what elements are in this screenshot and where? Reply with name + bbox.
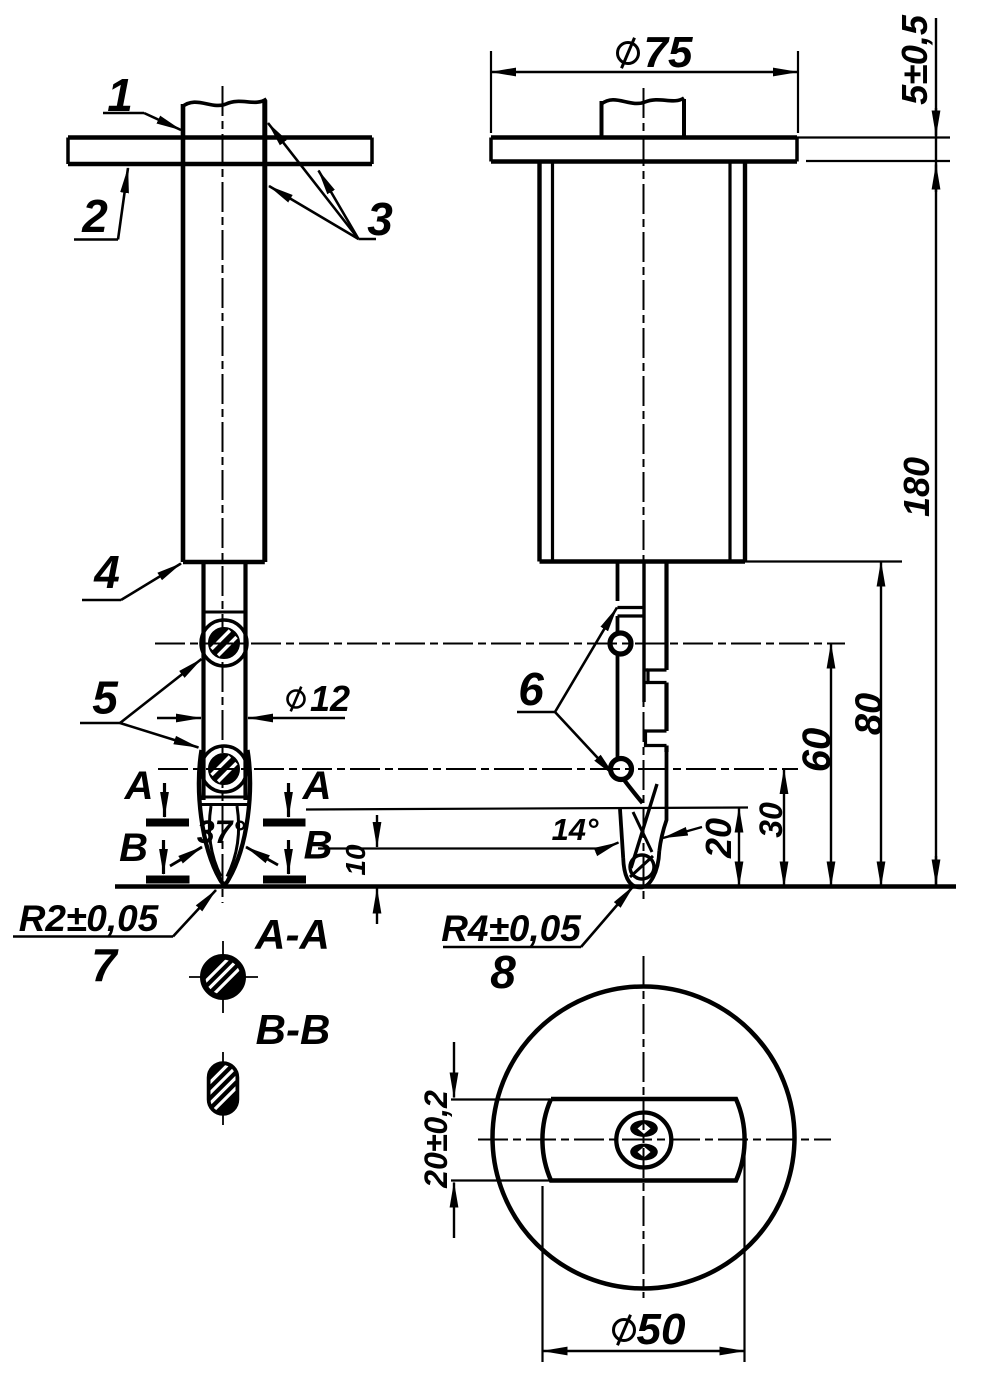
svg-text:B: B (119, 826, 148, 870)
svg-text:B-B: B-B (256, 1006, 331, 1053)
svg-text:A-A: A-A (254, 911, 330, 958)
svg-text:3: 3 (367, 193, 393, 245)
svg-text:20: 20 (698, 818, 739, 859)
svg-text:B: B (304, 824, 333, 868)
svg-text:30: 30 (753, 802, 789, 838)
svg-text:14°: 14° (552, 812, 599, 847)
svg-text:2: 2 (81, 190, 108, 242)
svg-text:37°: 37° (197, 814, 246, 850)
svg-text:5: 5 (92, 672, 119, 724)
svg-text:80: 80 (849, 693, 891, 735)
svg-text:R2±0,05: R2±0,05 (19, 898, 160, 939)
svg-text:12: 12 (310, 678, 350, 719)
svg-text:180: 180 (896, 457, 937, 517)
svg-text:A: A (302, 764, 332, 808)
svg-text:R4±0,05: R4±0,05 (441, 908, 582, 949)
svg-text:4: 4 (93, 546, 120, 598)
svg-text:7: 7 (91, 939, 119, 991)
svg-text:10: 10 (340, 844, 371, 876)
svg-text:8: 8 (490, 946, 516, 998)
svg-text:20±0,2: 20±0,2 (418, 1090, 454, 1189)
svg-text:60: 60 (795, 728, 839, 773)
svg-text:75: 75 (644, 28, 693, 77)
svg-text:A: A (124, 764, 154, 808)
svg-text:6: 6 (518, 663, 544, 715)
svg-text:50: 50 (637, 1305, 686, 1354)
svg-text:5±0,5: 5±0,5 (894, 14, 935, 105)
